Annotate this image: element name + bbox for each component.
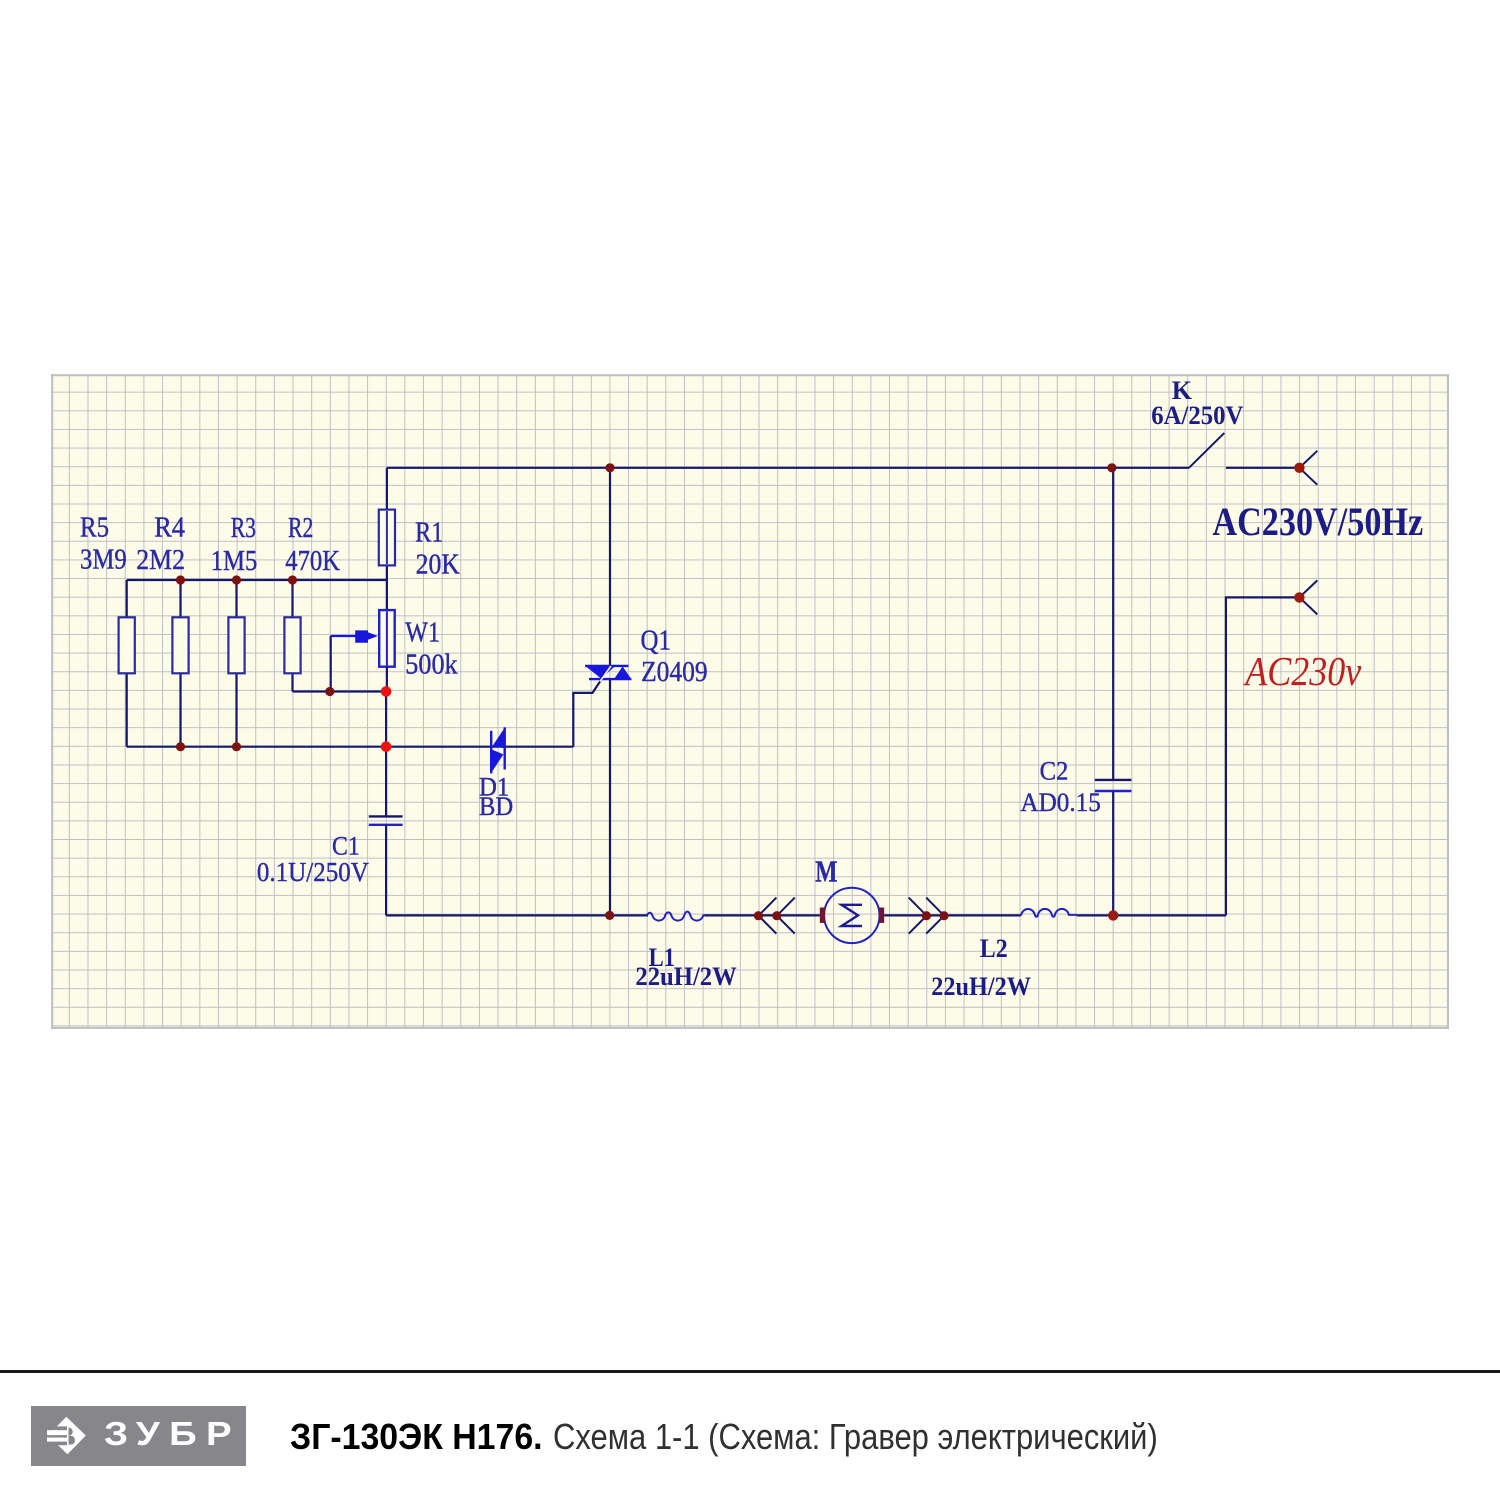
brush chevrons right [909,898,944,934]
svg-text:AC230V/50Hz: AC230V/50Hz [1212,499,1423,544]
svg-text:6A/250V: 6A/250V [1151,401,1243,430]
junction dot L2 right [1108,910,1118,920]
wire R1 to W1 lead [386,565,388,610]
logo diamond icon [44,1417,86,1455]
wire bottom main [386,914,648,916]
svg-text:2M2: 2M2 [136,545,185,576]
svg-text:3M9: 3M9 [80,544,127,575]
resistor R4 [172,580,188,747]
svg-text:22uH/2W: 22uH/2W [635,962,736,991]
connector lower [1294,580,1317,614]
svg-text:AD0.15: AD0.15 [1020,788,1100,817]
logo ZUBR [31,1406,246,1466]
wire gate step [573,679,601,746]
potentiometer W1 [379,610,395,691]
svg-text:0.1U/250V: 0.1U/250V [257,857,369,887]
node C1 top red dot [381,741,392,752]
inductor L1 [647,912,704,921]
svg-text:ЗУБР: ЗУБР [104,1415,241,1452]
resistor R1 [379,510,395,566]
svg-text:M: M [815,854,837,889]
svg-text:R1: R1 [415,517,443,548]
resistor R2 [284,580,300,692]
wire L1 to motor [704,914,819,916]
capacitor C2 [1095,780,1132,791]
wire resistor top bus [127,579,387,581]
wire top right segment after switch [1226,467,1300,469]
svg-text:500k: 500k [405,650,457,681]
svg-text:470K: 470K [285,546,340,577]
svg-text:Z0409: Z0409 [641,657,708,688]
wire L2 to riser [1077,914,1226,916]
W1 wiper arrow [331,630,378,691]
svg-text:R5: R5 [80,512,109,543]
brush chevrons left [759,898,795,934]
svg-text:C2: C2 [1040,757,1069,786]
triac Q1 [585,666,631,682]
wire R2 bottom to W1 bottom [293,690,387,692]
svg-text:R2: R2 [288,513,313,544]
svg-text:1M5: 1M5 [211,546,258,577]
footer title bold part [290,1417,543,1457]
svg-text:BD: BD [479,792,513,821]
connector upper [1294,451,1317,485]
wire right riser [1226,597,1300,915]
inductor L2 [1021,909,1077,917]
svg-text:22uH/2W: 22uH/2W [931,972,1031,1001]
svg-text:W1: W1 [405,618,440,649]
switch K blade [1189,433,1224,468]
svg-text:R3: R3 [231,513,256,544]
resistor R5 [119,580,135,747]
svg-text:Q1: Q1 [641,626,671,657]
wire R1 top lead [386,468,388,510]
node W1 bottom red dot [381,686,392,697]
wire bottom resistor bus [127,746,574,748]
motor M [820,888,884,943]
svg-text:AC230v: AC230v [1243,648,1362,694]
footer title regular part [553,1417,1158,1457]
schematic grid background [51,374,1449,1029]
diac D1 [491,727,505,773]
wire triac branch [609,468,611,916]
svg-text:20K: 20K [416,550,460,581]
junction dots [176,463,1117,920]
footer rule [0,1370,1500,1373]
capacitor C1 [369,692,403,916]
resistor R3 [228,580,244,747]
svg-text:L2: L2 [980,934,1008,963]
wire motor to L2 [884,914,1021,916]
svg-text:R4: R4 [154,513,185,544]
wire top bus [387,467,1189,469]
wire C2 branch [1112,468,1114,916]
